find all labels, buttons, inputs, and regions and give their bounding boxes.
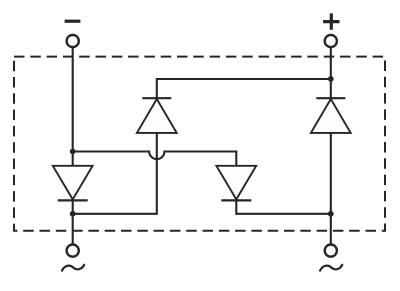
wire: top bus D1 cathode to + node [157,79,331,98]
wire: + terminal down to D2 cathode [330,47,332,97]
diode D2 (right, pointing up) [311,98,351,133]
wire: D4 cathode down and right to AC2 node [236,200,330,214]
label + (DC plus terminal) [323,13,339,29]
wire: D1 anode down and left to AC1 node [73,132,157,213]
diode D1 (center top, pointing up) [137,98,177,133]
wire: minus node horizontal run with hop over AC1 wire, then down to D4 anode [73,152,237,167]
node: junction dot AC2 [328,211,334,217]
label − (DC minus terminal) [65,20,81,23]
diode D4 (center bottom, pointing down) [216,166,256,201]
node: junction dot + bus [328,76,334,82]
package outline (dashed rectangle) [14,57,385,231]
wire: − terminal down to D3 anode [72,47,74,166]
terminal circle + [325,35,337,47]
wire: D2 anode down to AC2 terminal [330,132,332,244]
terminal circle AC2 (bottom right) [325,245,337,257]
label ~ (AC1) [62,265,84,271]
node: junction dot AC1 [70,211,76,217]
node: junction dot minus/D3 [70,149,76,155]
diode D3 (left, pointing down) [53,166,93,201]
wire: D3 cathode down to AC1 terminal [72,200,74,244]
terminal circle − [67,35,79,47]
terminal circle AC1 (bottom left) [67,245,79,257]
label ~ (AC2) [320,265,342,271]
